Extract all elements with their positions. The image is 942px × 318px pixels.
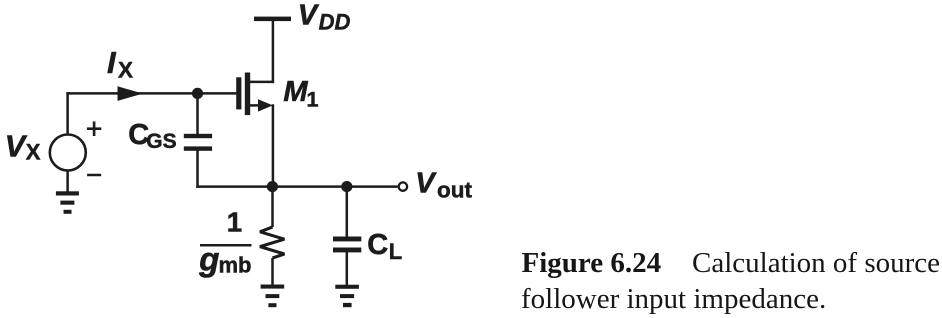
svg-text:1: 1 (227, 207, 242, 238)
svg-text:DD: DD (319, 10, 351, 35)
svg-text:X: X (26, 140, 41, 165)
svg-text:X: X (118, 58, 133, 83)
svg-text:follower input impedance.: follower input impedance. (521, 283, 826, 315)
svg-text:1: 1 (307, 87, 319, 111)
svg-text:Calculation of source: Calculation of source (692, 247, 940, 279)
svg-text:L: L (389, 239, 402, 264)
svg-text:C: C (367, 229, 388, 261)
svg-text:V: V (298, 0, 320, 32)
svg-text:out: out (437, 178, 472, 203)
svg-text:I: I (107, 45, 117, 80)
svg-text:V: V (5, 130, 28, 164)
svg-text:V: V (415, 168, 437, 200)
svg-text:Figure 6.24: Figure 6.24 (522, 247, 662, 279)
svg-text:mb: mb (219, 252, 252, 277)
svg-text:g: g (198, 241, 219, 278)
svg-text:GS: GS (146, 130, 176, 153)
svg-text:M: M (283, 76, 308, 108)
